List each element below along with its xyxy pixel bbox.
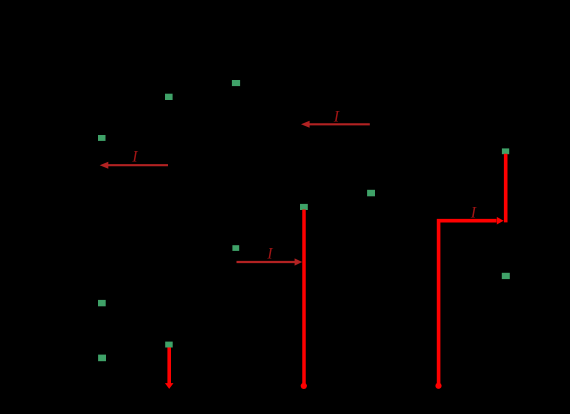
svg-text:I: I bbox=[333, 109, 340, 126]
svg-text:I: I bbox=[266, 246, 273, 263]
node marker (green) top of middle red wire bbox=[300, 204, 308, 210]
highlighted wire with down arrow (bottom-left) bbox=[165, 347, 174, 389]
node marker (green) right lower bbox=[502, 273, 510, 279]
node marker (green) left branch bbox=[98, 135, 106, 141]
node marker (green) left of current arrow C bbox=[232, 245, 239, 251]
terminal dot of L-wire bbox=[435, 383, 441, 389]
highlighted wire: middle vertical (red) bbox=[302, 210, 306, 386]
current arrow B (top middle, y=124) bbox=[301, 121, 370, 128]
terminal dot of middle wire bbox=[301, 383, 307, 389]
current arrow C (middle, y=262, pointing right) bbox=[237, 258, 303, 265]
node marker (green) middle-right bbox=[367, 190, 375, 197]
node marker (green) top-left of battery bbox=[165, 94, 173, 100]
node marker (green) top of right red wire bbox=[502, 148, 509, 154]
current arrow A (left, y=165) bbox=[100, 162, 168, 169]
node marker (green) bottom-left upper bbox=[98, 300, 106, 306]
svg-text:I: I bbox=[470, 204, 477, 221]
highlighted wire: right vertical (red) bbox=[504, 154, 508, 223]
node marker (green) top resistor bbox=[232, 80, 240, 86]
svg-text:I: I bbox=[131, 148, 138, 165]
node marker (green) above down-arrow wire bbox=[165, 342, 173, 348]
node marker (green) bottom-left lower bbox=[98, 355, 106, 362]
highlighted L-wire with current arrow (right-bottom) bbox=[439, 217, 504, 384]
